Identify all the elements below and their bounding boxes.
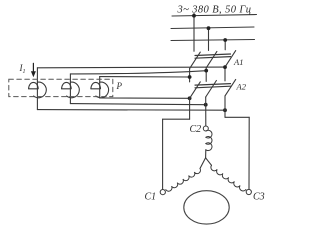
wire loop1 left leg [36,68,38,110]
wire loop2 left leg [69,74,71,104]
wire loop2 bottom [70,104,205,105]
terminal C2 [203,126,208,131]
contactor A1 blade 3 [225,51,236,68]
contactor A1 blade 2 [206,51,217,68]
wire A1 pole1 down to A2 [189,69,191,82]
wire V2 from L2 to A1 [208,28,210,50]
terminal C1 [160,190,165,195]
wire loop1 top (phase 1 to CT block) [37,66,225,69]
node V3-L3 [223,38,227,42]
svg-text:С3: С3 [253,192,265,203]
node loop1-bottom / C3 branch [223,108,227,112]
svg-text:А1: А1 [233,57,243,67]
contactor A1 top rail [195,54,231,58]
node V2-L2 [207,26,211,30]
contactor A2 blade 2 [206,81,217,98]
star center node [200,158,212,169]
current transformer 3 [91,82,109,98]
svg-text:Р: Р [116,81,123,91]
wire loop2 top [70,71,206,74]
svg-text:А2: А2 [236,82,247,92]
wire A2 pole3 to C3: right [225,116,249,118]
wire A2 pole1 to C1: down [189,98,191,119]
terminal C3 [246,189,251,194]
dashed enclosure P [9,79,113,96]
wire V3 from L3 to A1 [224,40,226,50]
winding C3 coil [211,165,246,191]
contactor A2 blade 3 [225,79,236,96]
wire A2 pole1 to C1: left [163,118,190,120]
wire coil2 to star center [205,150,207,158]
bus line L2 [171,27,254,29]
winding C1 coil [166,169,201,192]
wire loop3 left leg [99,77,101,98]
node V1-L1 [192,14,196,18]
motor rotor [184,191,229,224]
current transformer 1 [29,82,47,98]
current transformer 2 [62,82,80,98]
node loop3-top / pole1 [188,75,192,79]
wire A1 pole2 down to A2 [205,68,207,82]
node loop1-top / pole3 [223,65,227,69]
wire loop3 top [100,76,190,78]
node loop2-top / pole2 [204,69,208,73]
node loop3-bottom / C1 branch [188,96,192,100]
contactor A2 top rail [195,84,231,88]
node loop2-bottom / C2 branch [204,103,208,107]
winding C2 coil [206,130,212,150]
wire A1 pole3 down to A2 [224,67,226,81]
wire loop3 bottom [100,97,190,99]
bus line L3 [171,40,255,41]
contactor A1 blade 1 [190,52,201,69]
wire A2 pole1 to C1: down leg [162,119,164,189]
bus line L1 [172,15,257,17]
arrow I1 [31,63,36,77]
wire A2 pole3 to C3: down leg [248,117,250,189]
svg-text:С1: С1 [145,192,157,203]
svg-text:С2: С2 [190,124,202,135]
contactor A2 blade 1 [190,82,201,99]
wire V1 from L1 to A1 [193,14,195,52]
wire loop1 bottom [37,109,225,112]
wire A2 pole3 to C3: down [224,96,226,117]
wire A2 pole2 to C2 [205,97,207,126]
svg-text:3~ 380 В, 50 Гц: 3~ 380 В, 50 Гц [177,5,252,16]
svg-text:I1: I1 [19,63,26,75]
